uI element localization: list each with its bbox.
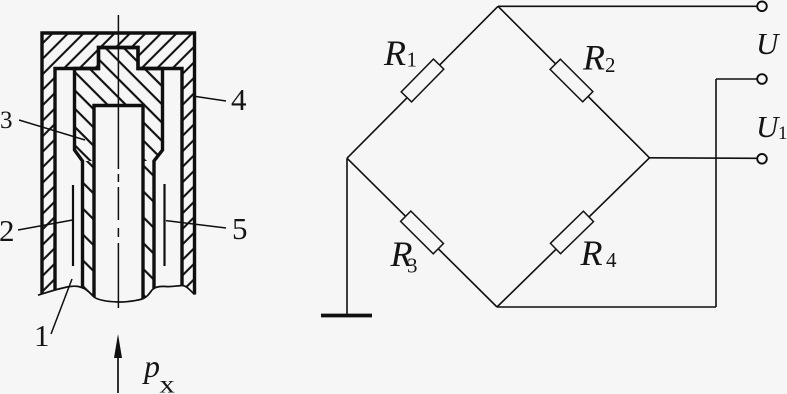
strain cylinder lower-right wall hatch fill	[143, 161, 154, 312]
wire: node A (top) to node D (left) through R1	[347, 6, 498, 158]
svg-text:U: U	[756, 26, 781, 61]
terminal U1 output	[757, 154, 767, 164]
strain gauge 2 (left)	[72, 185, 74, 266]
wire: node A (top) to node B (right) through R2	[498, 6, 650, 158]
resistor R2	[550, 59, 593, 102]
wire: vertical riser from node C	[715, 79, 717, 307]
svg-text:1: 1	[407, 48, 418, 72]
strain cylinder 1 with boss 3 : upper body hatch fill	[75, 48, 163, 162]
svg-text:R: R	[383, 33, 406, 73]
strain cylinder outline	[75, 48, 163, 313]
wire: node B (right) to node C (bottom) through R4	[497, 158, 650, 307]
leader line 4	[196, 97, 226, 102]
leader line 2	[18, 220, 73, 230]
svg-text:3: 3	[0, 107, 13, 134]
svg-text:p: p	[142, 348, 160, 384]
wire: node B to output terminal U1	[650, 157, 758, 160]
housing shell 4 (sectioned, hatched)	[42, 33, 195, 312]
svg-text:3: 3	[407, 254, 418, 278]
svg-text:4: 4	[231, 82, 247, 117]
svg-text:1: 1	[34, 318, 50, 353]
leader line 3	[19, 120, 85, 140]
break line (wavy section cut)	[38, 285, 195, 302]
strain gauge 5 (right)	[163, 184, 165, 266]
centerline	[117, 15, 119, 308]
wire: riser to supply terminal U-	[716, 78, 758, 80]
leader line 5	[166, 221, 226, 228]
svg-text:4: 4	[606, 248, 617, 272]
leader line 1	[51, 279, 72, 334]
svg-text:1: 1	[778, 123, 787, 144]
svg-text:2: 2	[0, 213, 15, 248]
svg-text:R: R	[580, 233, 603, 273]
ground	[321, 314, 372, 318]
terminal U+	[757, 2, 767, 12]
resistor R3	[401, 211, 444, 254]
wire: node A to supply terminal U+	[498, 5, 758, 7]
resistor R1	[401, 59, 444, 102]
wire: node D down to ground	[346, 158, 348, 314]
svg-text:R: R	[582, 38, 605, 78]
svg-text:5: 5	[232, 211, 248, 246]
terminal U-	[757, 74, 767, 84]
wire: node C bottom horizontal run	[497, 306, 716, 308]
svg-text:2: 2	[605, 53, 616, 77]
pressure arrow shaft	[117, 357, 119, 393]
pressure arrow head	[114, 334, 122, 358]
wire: node D (left) to node C (bottom) through R3	[347, 158, 497, 307]
resistor R4	[550, 211, 593, 253]
strain cylinder lower-left wall hatch fill	[83, 161, 95, 312]
svg-text:x: x	[160, 371, 175, 394]
